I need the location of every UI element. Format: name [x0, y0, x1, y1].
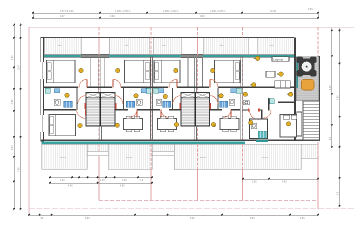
- balcony hatch unit5: [257, 38, 294, 54]
- party wall 1: [97, 56, 99, 92]
- bottom glazing teal band: [42, 142, 245, 144]
- stair1 side door jambs: [85, 103, 87, 109]
- svg-text:2.36: 2.36: [252, 182, 257, 184]
- svg-text:1.93: 1.93: [60, 180, 65, 182]
- svg-text:4.25: 4.25: [330, 85, 332, 90]
- svg-text:6.90: 6.90: [12, 55, 14, 60]
- bed unit1: [47, 60, 76, 82]
- terrace divider wall: [294, 37, 296, 141]
- top glazing teal band: [44, 55, 294, 57]
- terrace teal edge: [296, 57, 298, 88]
- svg-text:4.57 0.9 2.30: 4.57 0.9 2.30: [60, 11, 74, 13]
- bottom stair landing right: [301, 144, 318, 158]
- bottom porch notch 1: [87, 144, 108, 151]
- living door arc: [250, 111, 259, 120]
- door arc unit3 bedroom: [169, 79, 177, 87]
- svg-text:terrace: terrace: [60, 156, 67, 159]
- balcony labels: [58, 45, 275, 159]
- svg-text:9.90: 9.90: [110, 16, 115, 18]
- door gaps in wall y87: [78, 86, 87, 89]
- dining table unit3: [158, 116, 177, 132]
- tick marks right lines: [331, 29, 341, 207]
- left wall window 2: [40, 115, 44, 132]
- party wall 4: [240, 56, 242, 140]
- left dim line 1: [13, 23, 15, 209]
- party wall below stair1: [99, 126, 196, 140]
- left dim line 2: [20, 23, 22, 209]
- red party line right: [317, 27, 319, 209]
- svg-text:terrace: terrace: [262, 156, 269, 159]
- living unit interior wall horizontal: [242, 109, 263, 111]
- svg-text:9.35: 9.35: [308, 9, 313, 11]
- pink top boundary line: [29, 26, 354, 28]
- svg-text:9.93: 9.93: [250, 218, 255, 220]
- wall above lower rooms: [44, 109, 240, 111]
- svg-text:1.465 + 9.35 m: 1.465 + 9.35 m: [210, 11, 225, 13]
- bed unit4: [215, 60, 241, 82]
- svg-text:4.90: 4.90: [282, 182, 287, 184]
- TV sideboard / legend box: [272, 57, 289, 62]
- kitchen counter: [243, 101, 249, 105]
- tick marks left lines: [13, 24, 22, 210]
- svg-text:balc.: balc.: [125, 45, 130, 47]
- bottom balcony dims right: [243, 178, 318, 180]
- red party line 3: [197, 27, 199, 200]
- wardrobe living: [297, 112, 302, 136]
- bottom teal segment living: [256, 140, 268, 142]
- bottom balcony left: [42, 144, 88, 169]
- svg-text:balc.: balc.: [220, 45, 225, 47]
- bed living unit: [280, 115, 298, 138]
- bath living: [250, 119, 268, 139]
- left wall: [41, 37, 44, 141]
- svg-text:1.465 + 9.36 m: 1.465 + 9.36 m: [163, 11, 178, 13]
- door arc unit2 bedroom: [113, 79, 121, 87]
- rotated dim text left/right: [12, 55, 340, 195]
- balcony hatch unit1: [44, 38, 81, 54]
- svg-text:7.60: 7.60: [338, 95, 340, 100]
- svg-text:1.23: 1.23: [100, 180, 105, 182]
- entry porch dark sill unit1/2: [81, 54, 109, 57]
- bath unit3: [154, 88, 173, 110]
- right dim line 1: [331, 28, 333, 147]
- tick marks bottom line: [28, 214, 319, 216]
- svg-text:1.465 + 9.35 m: 1.465 + 9.35 m: [115, 11, 130, 13]
- bath door arcs: [78, 96, 218, 105]
- door arc unit1 bedroom: [79, 79, 87, 87]
- balcony hatch unit4: [203, 38, 248, 54]
- bottom balcony right: [174, 144, 301, 169]
- left wall window 1: [40, 62, 44, 79]
- dim text tiny: [40, 9, 313, 220]
- light symbol marks: [214, 58, 289, 127]
- svg-text:9.93: 9.93: [85, 218, 90, 220]
- door arc unit1 lower: [77, 109, 86, 118]
- bottom dim line: [29, 214, 318, 216]
- right wall: [319, 56, 321, 141]
- svg-text:balc.: balc.: [162, 45, 167, 47]
- bath unit4: [218, 88, 241, 110]
- dining table terrace: [297, 57, 317, 77]
- svg-text:2.30: 2.30: [122, 180, 127, 182]
- bed unit2: [125, 60, 151, 82]
- bedroom door arc living: [264, 111, 272, 119]
- red party line 2: [150, 27, 152, 200]
- bottom wall: [41, 139, 320, 141]
- porch steps below notches: [87, 151, 174, 155]
- red party lines over balcony: [99, 27, 318, 209]
- bottom balcony dims left row1: [50, 177, 152, 179]
- balcony hatch unit2: [109, 38, 149, 54]
- door arc unit2 lower: [129, 109, 137, 117]
- svg-text:terrace: terrace: [126, 156, 133, 159]
- bottom porch notch 2: [152, 144, 174, 151]
- red party line 1: [98, 27, 100, 200]
- stair bay walls bedroom level: [90, 57, 202, 87]
- door arc unit4 bedroom: [210, 79, 218, 87]
- bed unit3: [154, 60, 180, 82]
- right dim line 2: [339, 28, 341, 206]
- living unit interior wall vertical: [261, 110, 263, 120]
- bottom balcony dims left row2: [50, 182, 152, 184]
- svg-text:12.4: 12.4: [19, 65, 21, 70]
- tick marks top line1: [32, 12, 319, 19]
- top dim line 2: [33, 17, 318, 19]
- svg-text:terrace: terrace: [200, 156, 207, 159]
- terrace hatch: [296, 57, 319, 101]
- svg-text:10.40: 10.40: [270, 11, 276, 13]
- bed lower unit1: [49, 115, 76, 136]
- sofa: [275, 81, 291, 88]
- plant pot terrace: [302, 80, 315, 91]
- bottom balcony mid: [108, 144, 152, 169]
- dining table unit2: [124, 116, 143, 132]
- svg-text:3.85: 3.85: [12, 99, 14, 104]
- party wall 3: [193, 56, 195, 92]
- wall under bedrooms: [44, 86, 294, 88]
- svg-text:4.95: 4.95: [120, 185, 125, 187]
- bath unit1: [45, 88, 77, 110]
- bath sinks upper row: [54, 89, 236, 93]
- tick marks balcony dims: [49, 176, 319, 184]
- svg-text:5.90: 5.90: [12, 145, 14, 150]
- stair2 side door jambs: [180, 103, 182, 109]
- outdoor stair right: [303, 101, 320, 140]
- door gaps in wall y109: [76, 108, 86, 111]
- pink rear yard line: [99, 200, 318, 202]
- svg-text:Legend: Legend: [273, 57, 283, 61]
- svg-text:balc.: balc.: [58, 45, 63, 47]
- party wall 2: [149, 56, 151, 140]
- svg-text:2.97: 2.97: [60, 16, 65, 18]
- bedroom wall vertical: [268, 98, 269, 111]
- dining table unit4: [220, 116, 239, 132]
- pink rear boundary dashed: [29, 208, 354, 210]
- door arc unit3 lower: [161, 109, 169, 117]
- svg-text:7.45: 7.45: [19, 167, 21, 172]
- svg-text:9.93: 9.93: [190, 218, 195, 220]
- svg-text:4.45: 4.45: [68, 185, 73, 187]
- svg-text:6.55: 6.55: [300, 218, 305, 220]
- bath unit2: [124, 88, 151, 110]
- top dim line 1: [33, 12, 318, 14]
- balcony hatch unit3: [153, 38, 181, 54]
- bedroom top wall segment: [278, 101, 294, 103]
- red party line 4: [242, 27, 244, 200]
- top facade wall: [44, 36, 294, 38]
- svg-text:balc.: balc.: [270, 45, 275, 47]
- svg-text:9.90: 9.90: [200, 16, 205, 18]
- door arc unit4 lower: [223, 109, 231, 117]
- entry porch dark sill unit3/4: [181, 54, 203, 57]
- coffee table: [266, 71, 275, 77]
- pink left boundary line: [28, 27, 30, 213]
- washing machine: [270, 99, 275, 104]
